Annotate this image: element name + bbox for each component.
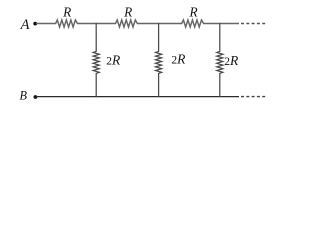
svg-text:2R: 2R: [106, 53, 121, 68]
resistor 2R #2 (vertical) with connecting wires: [156, 23, 162, 97]
resistor 2R #3 (vertical) with connecting wires: [217, 23, 223, 97]
wire top rail with resistors R1 R2 R3: [36, 20, 239, 27]
wire bottom rail dashed continuation: [241, 96, 267, 98]
node A terminal dot: [33, 22, 37, 26]
node B terminal dot: [34, 95, 38, 99]
svg-text:R: R: [62, 5, 71, 20]
wire bottom rail: [36, 96, 239, 98]
svg-text:R: R: [189, 5, 198, 20]
svg-text:2R: 2R: [224, 53, 239, 68]
svg-text:B: B: [20, 89, 28, 103]
svg-text:2R: 2R: [171, 52, 186, 67]
svg-text:A: A: [20, 17, 30, 33]
svg-text:R: R: [123, 5, 132, 20]
wire top rail dashed continuation: [241, 23, 267, 25]
resistor 2R #1 (vertical) with connecting wires: [93, 23, 99, 97]
